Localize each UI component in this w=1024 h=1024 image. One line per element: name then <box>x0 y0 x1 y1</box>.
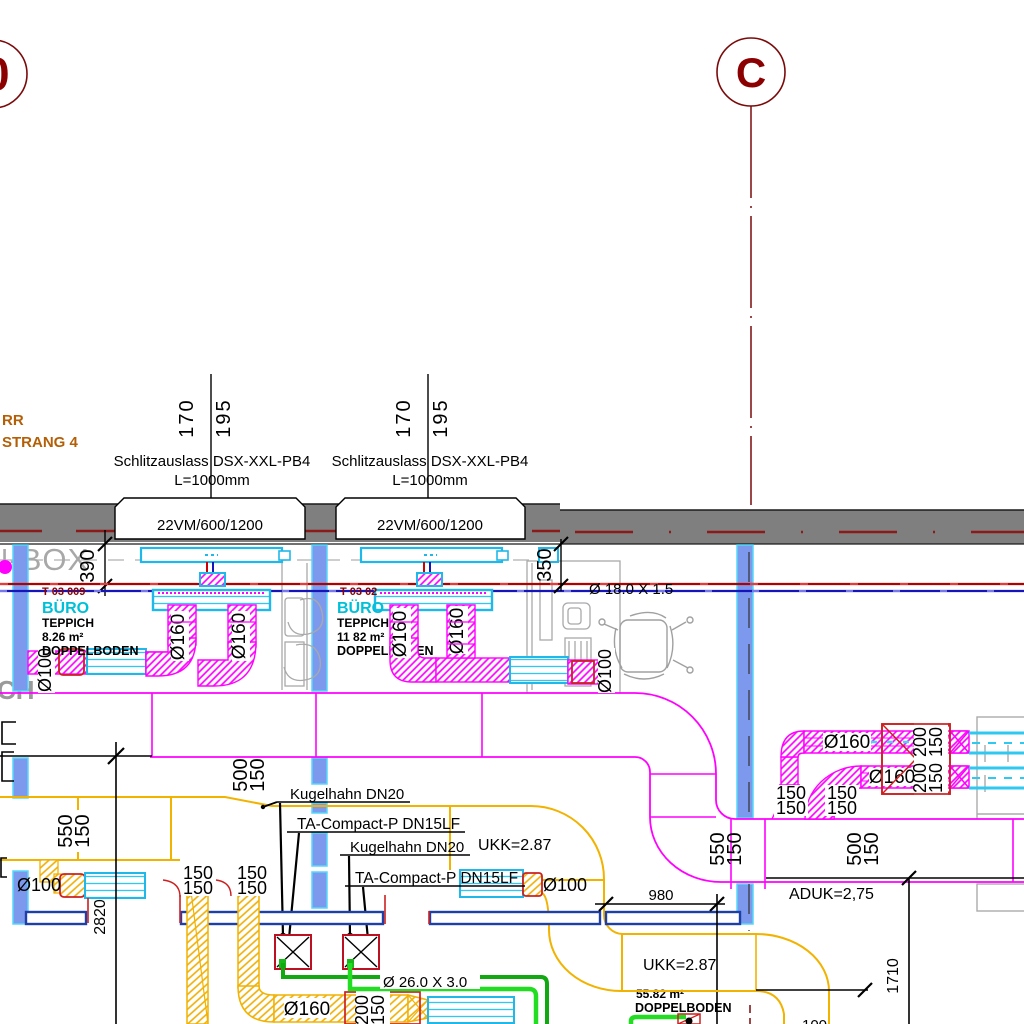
svg-text:Ø160: Ø160 <box>284 999 330 1020</box>
silencer box 22VM no.2 <box>336 498 525 539</box>
column K1 <box>13 545 28 924</box>
room1 riser duct 1 <box>168 605 196 645</box>
room1 exhaust run hatch <box>28 651 87 674</box>
silencer box 22VM no.1 <box>115 498 305 539</box>
room1 elbow 2 <box>198 642 256 686</box>
horizontal duct yellow <box>274 995 408 1022</box>
riser duct yellow 1 <box>187 860 208 1024</box>
wall band left <box>0 504 560 542</box>
svg-text:Kugelhahn DN20: Kugelhahn DN20 <box>350 839 464 856</box>
duct joint ticks <box>152 693 1013 889</box>
duct bottom edge <box>150 757 1024 882</box>
svg-text:TA-Compact-P DN15LF: TA-Compact-P DN15LF <box>355 870 518 887</box>
svg-text:STRANG 4: STRANG 4 <box>2 434 79 451</box>
column K3 <box>737 545 753 924</box>
slot diffuser right 2 (cyan) <box>969 768 1024 788</box>
column K2 <box>312 545 327 908</box>
room1 label D100 <box>38 648 55 693</box>
dimension line 170/195 no.2 <box>427 374 429 498</box>
furniture right edge desk (gray) <box>977 717 1024 911</box>
labels 200/150 bottom duct <box>356 990 390 1024</box>
room2 elbow 1 <box>390 638 436 682</box>
svg-text:Ø100: Ø100 <box>543 875 587 895</box>
svg-text:22VM/600/1200: 22VM/600/1200 <box>157 517 263 534</box>
svg-text:L=1000mm: L=1000mm <box>392 472 467 489</box>
svg-text:TA-Compact-P DN15LF: TA-Compact-P DN15LF <box>297 816 460 833</box>
svg-text:T 03 009: T 03 009 <box>42 586 85 598</box>
dim 980 <box>595 903 725 905</box>
room1 flex connector (red frame) <box>59 649 84 675</box>
room2 run <box>436 658 510 682</box>
svg-text:980: 980 <box>648 887 673 904</box>
svg-text:150: 150 <box>183 878 213 898</box>
green pipe A <box>283 963 547 1024</box>
labels 150/150 branch1 <box>774 785 808 816</box>
svg-text:TEPPICH: TEPPICH <box>42 616 94 630</box>
svg-text:DOPPELBODEN: DOPPELBODEN <box>42 644 139 658</box>
room2 label D100 <box>598 648 615 693</box>
ceiling diffuser room2 <box>375 590 492 610</box>
svg-text:Ø160: Ø160 <box>390 611 411 657</box>
svg-text:UKK=2.87: UKK=2.87 <box>643 957 716 974</box>
svg-text:150: 150 <box>861 832 883 865</box>
svg-text:150: 150 <box>926 763 946 793</box>
section brackets left edge <box>1 722 16 877</box>
svg-text:Ø 26.0 X 3.0: Ø 26.0 X 3.0 <box>383 974 467 991</box>
svg-text:L=1000mm: L=1000mm <box>174 472 249 489</box>
grid centerline C <box>750 106 752 505</box>
riser joint ticks <box>168 622 475 644</box>
ceiling dashed line <box>0 559 560 561</box>
dim 390 <box>77 530 112 596</box>
riser duct yellow 2 + elbow <box>238 860 259 988</box>
connector room2 <box>417 573 442 586</box>
slot diffuser stub right <box>539 548 558 562</box>
green pipe B <box>350 963 536 1024</box>
svg-text:11 82 m²: 11 82 m² <box>337 630 384 644</box>
svg-text:ADUK=2,75: ADUK=2,75 <box>789 886 874 903</box>
svg-text:Ø 18.0 X 1.5: Ø 18.0 X 1.5 <box>589 581 673 598</box>
svg-text:Kugelhahn DN20: Kugelhahn DN20 <box>290 786 404 803</box>
duct end arrow 1 <box>950 731 969 753</box>
heating return line (blue) <box>0 590 1024 592</box>
grid circle 0 (left edge, partial) <box>0 40 27 108</box>
svg-text:170: 170 <box>393 398 415 437</box>
pipe risers (yellow) <box>77 797 79 860</box>
slot diffuser right 1 (cyan) <box>969 733 1024 753</box>
dim ADUK <box>766 877 1024 879</box>
grid line C continuation (dashed, in column) <box>748 552 750 818</box>
left pipe elbow assembly <box>40 860 58 882</box>
labels 200/150 pair1 <box>914 722 948 762</box>
labels 150/150 riser2 <box>234 852 270 896</box>
svg-text:C: C <box>736 49 766 96</box>
room1 duct labels <box>171 611 189 661</box>
connector room1 <box>200 573 225 586</box>
svg-text:150: 150 <box>247 758 269 791</box>
svg-text:RR: RR <box>2 412 24 429</box>
svg-text:150: 150 <box>724 832 746 865</box>
room2 duct labels <box>393 608 411 658</box>
leader lines to valves <box>280 803 372 954</box>
svg-text:Ø160: Ø160 <box>229 613 250 659</box>
labels 200/150 pair2 <box>914 758 948 798</box>
heating supply line (red) <box>0 583 1024 585</box>
svg-text:150: 150 <box>827 798 857 818</box>
svg-text:150: 150 <box>926 727 946 757</box>
valve box 2 <box>343 935 379 969</box>
fan coil unit (cyan) <box>460 870 523 897</box>
dimension line 170/195 no.1 <box>210 374 212 498</box>
room2 silencer (cyan) <box>510 657 568 683</box>
svg-text:T 03 02: T 03 02 <box>340 586 377 598</box>
room2 riser duct 1 <box>390 605 418 645</box>
svg-text:195: 195 <box>213 398 235 437</box>
grid circle C <box>717 38 785 106</box>
svg-text:Ø100: Ø100 <box>17 875 61 895</box>
branch2 elbow <box>805 766 861 819</box>
heating main pipe 2 (yellow) <box>0 859 187 861</box>
slot diffuser bar room2 (top) <box>361 548 502 562</box>
crossed inspection box outline (over labels) <box>882 724 950 794</box>
svg-text:Ø100: Ø100 <box>595 649 615 693</box>
room1 run hatch 2 <box>146 652 170 674</box>
svg-text:DOPPELBODEN: DOPPELBODEN <box>635 1001 732 1015</box>
red wall edges <box>87 898 89 923</box>
duct top edge <box>0 693 1024 819</box>
branch duct D160 no.2 <box>861 766 967 788</box>
svg-text:Schlitzauslass DSX-XXL-PB4: Schlitzauslass DSX-XXL-PB4 <box>332 453 529 470</box>
svg-text:1710: 1710 <box>885 958 902 994</box>
main supply duct (white fill) <box>0 693 1024 882</box>
flex connector (red frame, yellow hatch) <box>60 874 85 897</box>
valve box 1 <box>275 935 311 969</box>
svg-text:Ø160: Ø160 <box>447 608 468 654</box>
branch duct D160 no.1 <box>804 731 967 753</box>
fire damper frame (red) <box>345 992 420 1024</box>
branch1 riser <box>781 757 798 800</box>
pipe branch to fan coil (yellow) <box>542 879 604 881</box>
svg-text:BÜRO: BÜRO <box>337 598 384 617</box>
svg-text:390: 390 <box>77 549 99 582</box>
svg-text:150: 150 <box>368 995 388 1024</box>
heating main pipe 1 (yellow) <box>0 797 829 1024</box>
svg-text:UKK=2.87: UKK=2.87 <box>478 837 551 854</box>
labels 150/150 riser1 <box>180 852 216 896</box>
wall dashed red line <box>0 530 560 533</box>
room2 riser duct 2 <box>447 605 475 658</box>
svg-text:22VM/600/1200: 22VM/600/1200 <box>377 517 483 534</box>
room1 riser duct 2 <box>228 605 256 647</box>
svg-text:TEPPICH: TEPPICH <box>337 616 389 630</box>
svg-text:0: 0 <box>0 48 10 100</box>
green stub bottom <box>631 1017 686 1024</box>
silencer bottom (cyan) <box>428 997 514 1023</box>
crossed inspection box (red) <box>882 724 950 794</box>
slot diffuser bar room1 (top) <box>141 548 282 562</box>
label green pipe <box>380 972 480 989</box>
dim 1710 <box>756 989 868 991</box>
window sill bars (blue) <box>26 912 740 924</box>
room1 elbow 1 <box>146 638 196 676</box>
dim 550/150 left <box>58 810 98 852</box>
flex connector 2 (red frame, yellow hatch) <box>523 873 542 896</box>
grid line C bottom dashes <box>749 1005 751 1024</box>
svg-text:150: 150 <box>72 814 94 847</box>
svg-text:8.26 m²: 8.26 m² <box>42 630 83 644</box>
labels 150/150 branch2 <box>825 785 859 816</box>
silencer (cyan) <box>85 873 145 898</box>
dim 2820 <box>0 755 152 757</box>
svg-text:100: 100 <box>802 1017 827 1024</box>
room1 silencer (cyan) <box>87 649 146 674</box>
room2 end hatch + red frame <box>568 660 599 684</box>
duct end arrow 2 <box>950 766 969 788</box>
svg-text:Ø160: Ø160 <box>869 767 915 788</box>
furniture room2 desk (gray) <box>527 561 620 693</box>
branch2 stub <box>805 795 834 819</box>
svg-text:55.82 m²: 55.82 m² <box>636 987 684 1001</box>
svg-text:170: 170 <box>176 398 198 437</box>
svg-text:150: 150 <box>776 798 806 818</box>
svg-text:350: 350 <box>534 548 556 581</box>
door arcs (red) <box>163 880 180 897</box>
dim 350 <box>534 537 568 593</box>
branch1 elbow <box>781 731 804 757</box>
svg-text:195: 195 <box>430 398 452 437</box>
svg-text:Ø160: Ø160 <box>824 732 870 753</box>
svg-text:Schlitzauslass DSX-XXL-PB4: Schlitzauslass DSX-XXL-PB4 <box>114 453 311 470</box>
svg-text:2820: 2820 <box>92 899 109 935</box>
transition (yellow) <box>408 995 428 1022</box>
svg-text:BÜRO: BÜRO <box>42 598 89 617</box>
furniture room2 office chair (gray) <box>599 612 693 679</box>
svg-text:150: 150 <box>237 878 267 898</box>
wall band right <box>560 510 1024 544</box>
furniture room1 (gray) <box>282 563 323 690</box>
ceiling diffuser room1 <box>153 590 270 610</box>
svg-text:Ø160: Ø160 <box>168 614 189 660</box>
